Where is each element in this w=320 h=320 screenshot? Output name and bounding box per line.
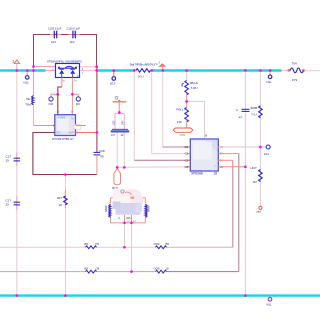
test point NL1 on bus xyxy=(23,71,29,85)
svg-text:C2: C2 xyxy=(185,152,189,156)
svg-text:24?: 24? xyxy=(121,120,125,125)
resistor R row1 right xyxy=(154,242,170,249)
svg-text:T04: T04 xyxy=(292,61,298,65)
svg-text:9d?R9o99?U?: 9d?R9o99?U? xyxy=(130,63,159,67)
wire U3 right pin2 xyxy=(218,153,239,155)
capacitor C2 on left rail xyxy=(6,199,21,207)
svg-text:XE: XE xyxy=(26,97,30,101)
svg-text:N1L: N1L xyxy=(266,80,272,84)
svg-text:1kV: 1kV xyxy=(70,40,75,44)
capacitor bank C11/C12 xyxy=(111,113,129,167)
net flag B down xyxy=(112,169,120,190)
svg-text:B: B xyxy=(205,134,207,138)
wire U3 right pin4 xyxy=(218,166,245,168)
svg-text:99?: 99? xyxy=(57,196,62,200)
wire coil to U2 pin xyxy=(34,105,55,126)
wire vertical x134.3 xyxy=(134,71,190,161)
resistor on x260.4 top xyxy=(259,106,263,118)
svg-text:F09: F09 xyxy=(99,149,105,153)
test point OO left xyxy=(49,94,58,106)
svg-text:19: 19 xyxy=(6,158,10,162)
svg-text:1kV: 1kV xyxy=(51,40,56,44)
svg-text:N1L: N1L xyxy=(266,303,272,307)
wire row2 corner up xyxy=(238,154,240,272)
svg-text:22?: 22? xyxy=(111,120,115,125)
svg-text:19: 19 xyxy=(6,202,10,206)
wire bridge bottom-left pin down xyxy=(61,78,63,88)
resistor divider RB1 top xyxy=(182,71,199,108)
svg-text:JA1: JA1 xyxy=(264,152,270,156)
wire upper rail left xyxy=(34,66,56,68)
power arrow red on bus xyxy=(158,61,166,71)
wire vertical x151.7 xyxy=(152,71,191,154)
capacitor C9 on x96.9 xyxy=(94,149,105,175)
wire vertical x260.4 xyxy=(259,71,261,207)
net flag hexagon xyxy=(173,128,193,137)
svg-text:18: 18 xyxy=(59,203,63,207)
power flag VDC on cap bank xyxy=(113,96,126,112)
svg-text:B9: B9 xyxy=(166,242,170,246)
svg-text:19: 19 xyxy=(166,266,170,270)
resistor on bus R bus xyxy=(130,63,159,79)
wire bus right pale end xyxy=(282,69,290,71)
capacitor C1 on left rail xyxy=(6,155,21,163)
tooltip artifact xyxy=(74,125,81,130)
svg-text:O2?: O2? xyxy=(56,131,61,134)
svg-text:B(?): B(?) xyxy=(112,186,118,190)
bridge rectifier D1 xyxy=(47,60,84,83)
svg-text:9P83H8: 9P83H8 xyxy=(191,171,203,175)
wire upper rail right xyxy=(80,66,97,68)
wire U2 pin2 to left then down to node rail xyxy=(33,133,97,175)
wire U2 right pin2 to node x96.9 xyxy=(76,132,97,134)
svg-text:YB?: YB? xyxy=(256,210,262,214)
wire row1 y247.3 xyxy=(0,246,233,248)
wire vertical x65.4 lower rail xyxy=(64,175,66,296)
inductor L1 xyxy=(25,96,33,107)
svg-text:9U: 9U xyxy=(253,180,257,184)
ground symbol red circle xyxy=(256,206,262,214)
svg-text:C110 0.1uF: C110 0.1uF xyxy=(67,27,81,31)
svg-text:OO9: OO9 xyxy=(154,266,160,270)
wire vertical node rail x96.9 xyxy=(96,67,98,152)
svg-text:T8d: T8d xyxy=(25,103,31,107)
svg-text:›: › xyxy=(84,123,85,127)
svg-text:C2: C2 xyxy=(185,158,189,162)
svg-text:9A98: 9A98 xyxy=(147,205,151,212)
svg-text:HN?: HN? xyxy=(251,166,257,170)
svg-text:119: 119 xyxy=(177,120,182,124)
svg-text:B9: B9 xyxy=(85,242,89,246)
svg-text:9O: 9O xyxy=(76,102,81,106)
wire vertical x245.4 full xyxy=(244,71,246,296)
IC U3 controller xyxy=(185,139,224,175)
svg-text:P9: P9 xyxy=(96,242,100,246)
connector JA1 xyxy=(264,145,270,156)
wire bus mid segment xyxy=(97,69,134,71)
wire to U2 top pin1 xyxy=(57,94,59,114)
port P2 red connector top-left xyxy=(12,59,19,70)
wire salmon segments near left caps xyxy=(16,153,18,167)
svg-text:9 IU: 9 IU xyxy=(138,75,144,79)
wire U3 left pin stubs salmon xyxy=(187,147,190,167)
svg-text:C103 0.1uF: C103 0.1uF xyxy=(48,27,62,31)
svg-text:(a): (a) xyxy=(127,220,130,223)
svg-text:O9: O9 xyxy=(96,266,100,270)
test point OO right xyxy=(72,94,80,106)
svg-text:OO: OO xyxy=(49,102,54,106)
capacitor C110 xyxy=(67,27,81,44)
wire row1 corner up xyxy=(232,160,234,247)
svg-text:9B-HL: 9B-HL xyxy=(190,81,199,85)
svg-text:B9: B9 xyxy=(85,266,89,270)
svg-text:N1L: N1L xyxy=(23,81,29,85)
inductor T04 top right xyxy=(287,61,305,82)
svg-text:T-RU: T-RU xyxy=(191,86,198,90)
top power bus net xyxy=(0,69,282,71)
wire U2 right pin1 stub xyxy=(76,125,86,127)
IC U2 power module xyxy=(52,110,81,140)
svg-text:18: 18 xyxy=(214,171,218,175)
wire vertical x162.8 xyxy=(163,71,191,148)
svg-text:O: O xyxy=(77,75,79,78)
svg-text:OO9: OO9 xyxy=(154,242,160,246)
resistor R row2 left xyxy=(85,266,100,273)
svg-text:A 9999: A 9999 xyxy=(58,116,66,119)
svg-text:OO9: OO9 xyxy=(180,133,186,137)
resistor divider RB2 bottom xyxy=(176,107,188,128)
svg-text:|1B: |1B xyxy=(126,216,130,220)
wire row2 y271.6 xyxy=(0,271,239,273)
svg-text:DB: DB xyxy=(185,165,189,169)
wire bus left segment xyxy=(0,69,46,71)
svg-text:N1?: N1? xyxy=(110,82,116,86)
junction dots magenta xyxy=(15,65,271,297)
wire relay pin1 down xyxy=(124,223,126,248)
resistor R row1 left xyxy=(85,242,100,249)
svg-text:9A98: 9A98 xyxy=(104,205,108,212)
svg-text:9?O99 8?B9 9?: 9?O99 8?B9 9? xyxy=(52,137,74,141)
wire U3 right pin3 xyxy=(218,159,233,161)
wire inductor to right edge xyxy=(304,69,320,71)
resistor R row2 right xyxy=(154,266,170,273)
svg-text:11?: 11? xyxy=(111,133,116,137)
capacitor C103 xyxy=(48,27,62,44)
test point NL2 on bus xyxy=(110,71,116,86)
wire vertical left rail x17 xyxy=(16,71,18,296)
wire bridge right to node xyxy=(80,69,98,71)
svg-text:DB: DB xyxy=(185,145,189,149)
wire bus stub to bridge left xyxy=(46,70,56,72)
svg-text:9998: 9998 xyxy=(251,106,258,110)
svg-text:A0/9: A0/9 xyxy=(69,131,75,134)
resistor R18 on x65.4 xyxy=(57,190,67,208)
relay K1 xyxy=(104,189,151,224)
svg-text:PW1: PW1 xyxy=(176,107,183,111)
wire caps to U3 pin4 xyxy=(117,166,190,169)
wire bus right segment xyxy=(152,69,282,71)
wire relay pin2 down xyxy=(131,223,133,272)
wire U3 right pin1 to JA1 xyxy=(218,146,266,148)
test point NL3 on bus right xyxy=(266,71,272,85)
bottom ground bus xyxy=(0,294,320,296)
capacitor C on x245.4 xyxy=(236,106,258,119)
svg-text:? IU: ? IU xyxy=(251,112,257,116)
svg-text:99: 99 xyxy=(100,155,104,159)
resistor on x260.4 bottom xyxy=(251,166,263,184)
wire junction to U3 top pin xyxy=(187,101,205,139)
top X-cap loop wire xyxy=(34,35,97,67)
wire vertical x33.5 upper xyxy=(33,67,35,97)
svg-text:9Y9: 9Y9 xyxy=(292,78,298,82)
svg-text:A?: A? xyxy=(239,115,243,119)
test point NL4 bottom bus xyxy=(266,296,272,307)
wire bridge bottom-right pin down xyxy=(71,78,73,115)
